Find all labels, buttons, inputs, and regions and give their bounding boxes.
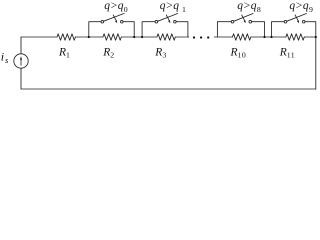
node switch q0 right junction [133,36,135,38]
switch q&gt;q1 branch right riser [176,22,188,37]
label q&gt;q8 [237,0,261,14]
node switch q1 left junction [141,36,143,38]
switch q&gt;q1 branch left riser [142,22,155,37]
current source is [14,54,28,68]
label R3 [154,47,166,60]
resistor R3 [157,34,175,40]
label q&gt;q9 [289,0,313,14]
node switch q8 right junction [263,36,265,38]
node top right corner junction [315,36,317,38]
wire top left segment [21,36,57,38]
label R11 [279,47,295,60]
resistor R10 [232,34,250,40]
node R1-R2 junction [88,36,90,38]
label is [1,50,9,65]
switch q&gt;q9 branch left riser [272,22,285,37]
wire left vertical above source [20,37,22,54]
wire right vertical [315,37,317,89]
switch q&gt;q0 branch left riser [89,22,101,37]
switch q&gt;q9 [284,14,306,24]
node switch q9 left junction [270,36,272,38]
switch q&gt;q1 [155,14,178,24]
label q&gt;q0 [104,0,128,14]
wire R10 to R11 [251,36,286,38]
wire R3 to ellipsis gap [175,36,189,38]
resistor R1 [57,34,75,40]
wire bottom [21,88,316,90]
switch q&gt;q8 branch right riser [252,22,265,37]
switch q&gt;q0 [101,13,124,23]
wire R2 to R3 [121,36,157,38]
wire R1 to R2 [75,36,103,38]
wire ellipsis gap to R10 [214,36,232,38]
wire R11 to right corner [304,36,316,38]
label q&gt;q1 [160,0,186,14]
label R10 [230,47,247,60]
switch q&gt;q0 branch right riser [123,22,134,37]
label R1 [58,47,70,60]
switch q&gt;q8 branch left riser [217,22,231,37]
wire left vertical below source [20,68,22,89]
switch q&gt;q8 [231,14,253,24]
ellipsis continuation dots [193,36,210,38]
switch q&gt;q9 branch right riser [305,22,316,37]
resistor R2 [103,34,121,40]
label R2 [102,47,114,60]
resistor R11 [286,34,304,40]
